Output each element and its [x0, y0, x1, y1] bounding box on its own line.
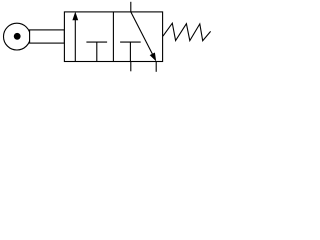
roller axle dot [14, 33, 21, 40]
port 2 connection line (top) [130, 2, 132, 12]
port 1 connection line (bottom) [130, 62, 132, 72]
valve body outline [64, 12, 162, 62]
position divider [112, 12, 114, 62]
left box blocked port T bar [86, 41, 107, 43]
right box diagonal arrowhead [150, 53, 157, 62]
right box blocked port T bar [120, 41, 141, 43]
left box blocked port T stem [96, 42, 98, 61]
port 3 exhaust stub (bottom right) [155, 61, 157, 71]
right box blocked port T stem [129, 42, 131, 61]
left box flow arrow shaft [74, 19, 76, 62]
3/2-way roller-lever pneumatic valve with spring return [0, 0, 214, 74]
left box flow arrowhead [72, 12, 78, 21]
return spring zigzag [163, 23, 211, 41]
right box diagonal flow line [131, 12, 154, 57]
roller actuator circle [4, 23, 31, 50]
plunger rod rectangle [30, 30, 65, 43]
